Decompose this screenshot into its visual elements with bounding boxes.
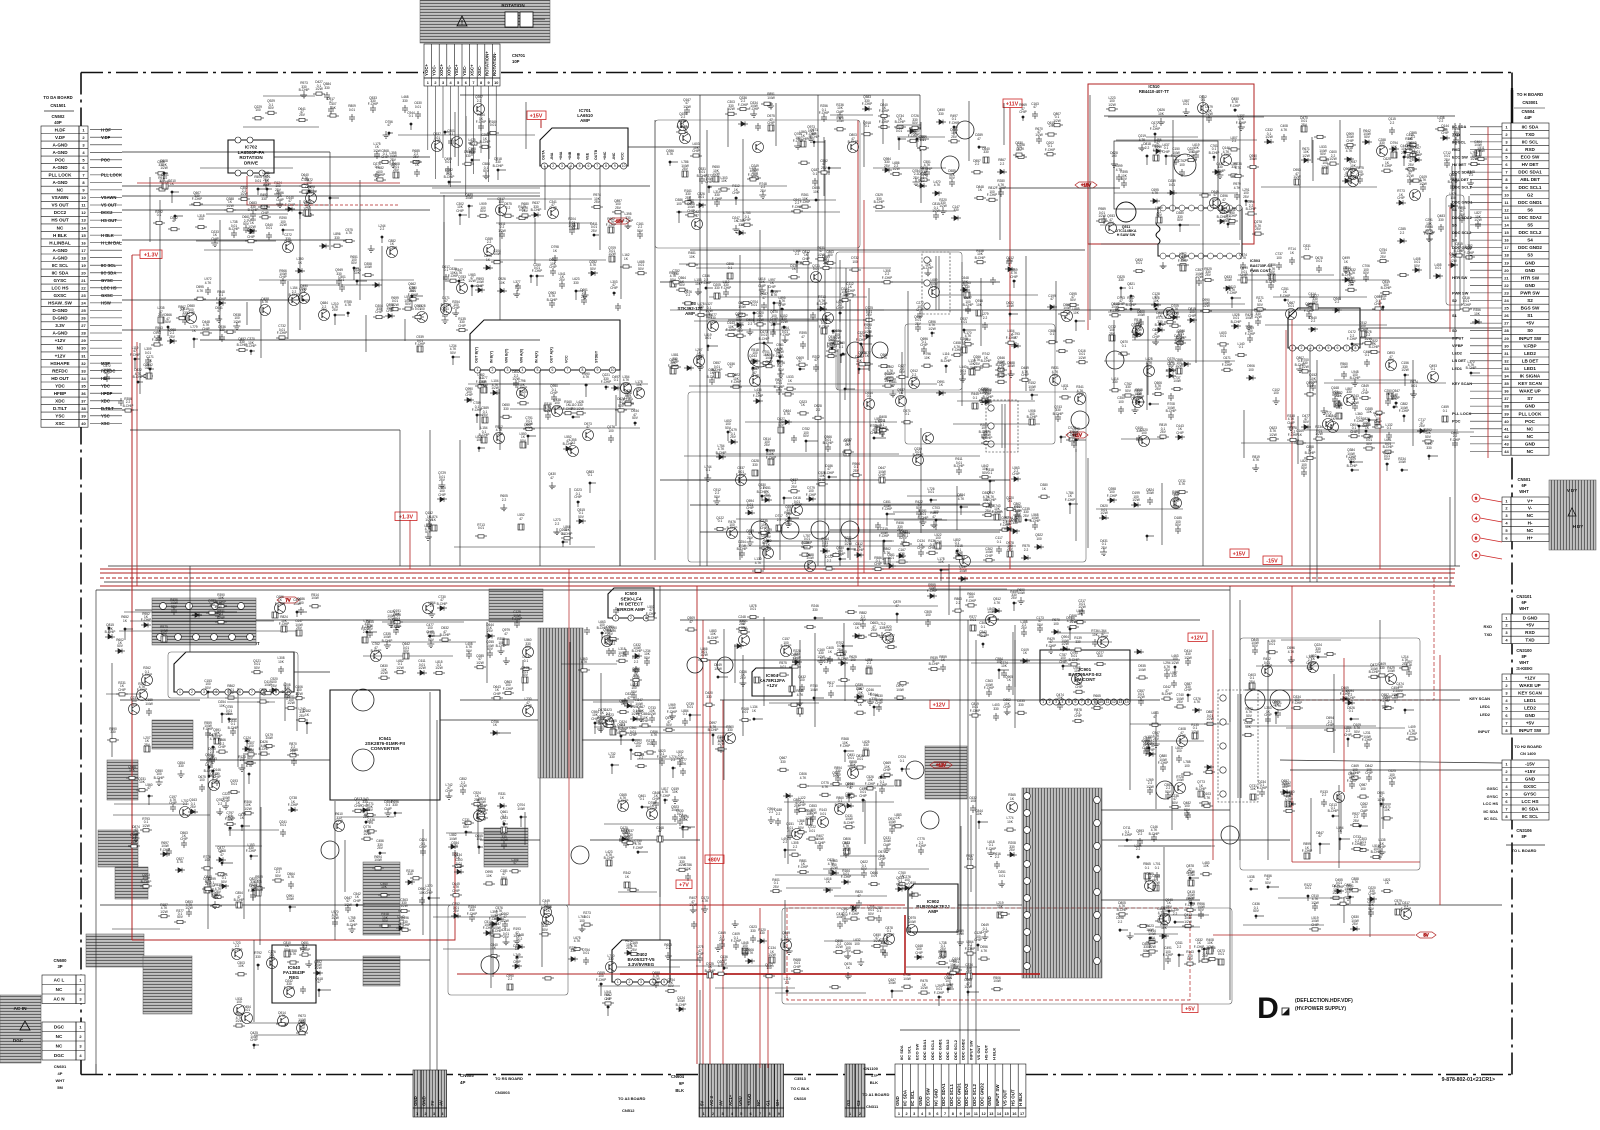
svg-text:CHIP: CHIP: [917, 546, 925, 550]
svg-text:F-CHIP: F-CHIP: [1347, 337, 1358, 341]
svg-text:0.1: 0.1: [1201, 98, 1206, 102]
HV drive Q903: [768, 766, 910, 893]
svg-text:G1: G1: [766, 1100, 771, 1106]
svg-text:ROTATION+: ROTATION+: [485, 51, 490, 76]
svg-text:LED2: LED2: [1524, 351, 1536, 356]
opto feedback: [332, 801, 426, 940]
svg-text:25V: 25V: [413, 155, 420, 159]
svg-text:F-CHIP: F-CHIP: [726, 328, 737, 332]
net label +12V: [930, 700, 949, 709]
svg-text:DDC SDA1: DDC SDA1: [922, 1039, 927, 1060]
svg-text:36: 36: [1504, 389, 1509, 394]
svg-text:CHIP: CHIP: [284, 240, 292, 244]
svg-text:V.FBP: V.FBP: [1523, 343, 1536, 348]
svg-text:RXD: RXD: [1452, 147, 1460, 152]
svg-text:ECO SW: ECO SW: [914, 1044, 919, 1060]
red vertical CN604: [759, 908, 761, 1068]
svg-text:2.2: 2.2: [213, 895, 218, 899]
rectifier parts 2: [593, 673, 656, 774]
svg-text:100: 100: [298, 601, 304, 605]
top left rail parts: [243, 91, 355, 127]
svg-text:B-CHIP: B-CHIP: [954, 464, 965, 468]
svg-text:B-CHIP: B-CHIP: [232, 948, 243, 952]
svg-text:AMP: AMP: [685, 311, 695, 316]
svg-text:!: !: [461, 21, 463, 27]
svg-text:20: 20: [81, 270, 86, 275]
svg-text:47: 47: [1222, 198, 1226, 202]
svg-text:25V: 25V: [1243, 195, 1250, 199]
svg-text:B-CHIP: B-CHIP: [1246, 207, 1257, 211]
svg-text:25V: 25V: [271, 684, 278, 688]
svg-text:1/4W: 1/4W: [265, 736, 272, 740]
svg-text:H BLK: H BLK: [991, 1048, 996, 1060]
svg-text:F-CHIP: F-CHIP: [1110, 309, 1121, 313]
svg-text:+80V: +80V: [708, 857, 721, 863]
snubber parts: [362, 603, 520, 684]
svg-text:INPUT SW: INPUT SW: [1519, 728, 1542, 733]
svg-text:BLK: BLK: [870, 1080, 878, 1085]
svg-text:F-CHIP: F-CHIP: [1450, 438, 1461, 442]
svg-text:0.01: 0.01: [1220, 334, 1226, 338]
svg-text:1/2W: 1/2W: [303, 207, 310, 211]
svg-text:10K: 10K: [976, 303, 983, 307]
svg-text:OUTA: OUTA: [541, 150, 545, 160]
svg-text:1/2W: 1/2W: [1098, 214, 1105, 218]
svg-text:7: 7: [251, 690, 253, 694]
relay drive chain: [201, 728, 265, 929]
svg-text:0.01: 0.01: [928, 490, 934, 494]
svg-text:TO L BOARD: TO L BOARD: [1512, 848, 1537, 853]
svg-text:GND: GND: [1525, 268, 1536, 273]
svg-text:OUTB: OUTB: [594, 149, 598, 160]
svg-text:0.1: 0.1: [157, 213, 162, 217]
svg-text:330: 330: [402, 99, 408, 103]
svg-text:1/2W: 1/2W: [1315, 432, 1322, 436]
svg-text:+5V: +5V: [1526, 623, 1535, 628]
S-correction switches: [669, 252, 896, 403]
svg-text:25V: 25V: [226, 712, 233, 716]
red vertical mid: [568, 569, 570, 905]
svg-text:2.2: 2.2: [363, 630, 368, 634]
svg-text:CHIP: CHIP: [1162, 150, 1170, 154]
svg-text:-INA: -INA: [550, 152, 554, 160]
rotation drive discretes: [150, 168, 343, 253]
svg-text:VSAWN: VSAWN: [52, 195, 70, 200]
svg-text:F-CHIP: F-CHIP: [279, 622, 290, 626]
svg-text:B-CHIP: B-CHIP: [1383, 445, 1394, 449]
red vertical bottom3: [709, 660, 711, 1064]
svg-text:YSC+: YSC+: [454, 64, 459, 76]
svg-text:18: 18: [1504, 253, 1509, 258]
svg-text:0.01: 0.01: [469, 142, 475, 146]
svg-text:YOC+: YOC+: [424, 63, 429, 76]
svg-text:4.7K: 4.7K: [1152, 191, 1159, 195]
IC701 input network: [370, 102, 535, 185]
svg-text:50V: 50V: [714, 495, 721, 499]
svg-text:IIC SDA: IIC SDA: [899, 1045, 904, 1060]
svg-text:H BLK: H BLK: [1018, 1092, 1023, 1106]
svg-text:25V: 25V: [636, 387, 643, 391]
svg-text:LED2: LED2: [1480, 712, 1491, 717]
svg-text:12: 12: [981, 1112, 985, 1116]
svg-text:GYSC: GYSC: [53, 278, 67, 283]
T902 pin circles: [1024, 793, 1101, 970]
svg-text:VS OUT: VS OUT: [1003, 1089, 1008, 1106]
svg-text:2.2: 2.2: [795, 252, 800, 256]
svg-text:4.7K: 4.7K: [1240, 256, 1247, 260]
svg-text:B-CHIP: B-CHIP: [248, 208, 259, 212]
H buf top: [676, 102, 776, 147]
svg-text:25V: 25V: [390, 158, 397, 162]
svg-text:B-CHIP: B-CHIP: [923, 266, 934, 270]
svg-text:B-CHIP: B-CHIP: [1369, 345, 1380, 349]
svg-text:NC: NC: [1527, 449, 1534, 454]
svg-text:25V: 25V: [1255, 227, 1262, 231]
svg-text:B-CHIP: B-CHIP: [154, 776, 165, 780]
thick red vertical: [904, 915, 906, 974]
svg-text:1/2W: 1/2W: [780, 320, 787, 324]
svg-text:47: 47: [317, 980, 321, 984]
svg-text:2: 2: [1049, 700, 1051, 704]
svg-text:10: 10: [494, 81, 498, 85]
svg-text:B-CHIP: B-CHIP: [479, 433, 490, 437]
svg-text:H.LINBAL: H.LINBAL: [49, 240, 71, 245]
svg-text:A-GND: A-GND: [52, 142, 68, 147]
relay mid: [202, 807, 298, 912]
svg-text:VEE: VEE: [585, 152, 589, 160]
svg-text:0.01: 0.01: [255, 179, 261, 183]
svg-text:F-CHIP: F-CHIP: [623, 219, 634, 223]
svg-text:0.1: 0.1: [449, 132, 454, 136]
svg-text:F-CHIP: F-CHIP: [792, 205, 803, 209]
svg-text:OUT A(X): OUT A(X): [550, 346, 554, 363]
svg-text:0.01: 0.01: [1411, 384, 1417, 388]
red bus y=586: [100, 585, 1455, 587]
svg-text:F-CHIP: F-CHIP: [1245, 332, 1256, 336]
svg-text:NC: NC: [56, 987, 63, 992]
svg-text:CHIP: CHIP: [758, 284, 766, 288]
svg-text:6: 6: [1337, 346, 1339, 350]
svg-text:100: 100: [1180, 258, 1186, 262]
svg-text:100: 100: [236, 1000, 242, 1004]
svg-text:35: 35: [81, 383, 86, 388]
reg low: [690, 900, 795, 988]
svg-text:1/2W: 1/2W: [939, 204, 946, 208]
svg-text:1/2W: 1/2W: [1364, 337, 1371, 341]
H drv buf top: [878, 99, 946, 150]
svg-text:NC: NC: [56, 1043, 63, 1048]
svg-text:CONVERTER: CONVERTER: [371, 746, 401, 751]
svg-text:PLL LOCK: PLL LOCK: [49, 173, 73, 178]
svg-text:F-CHIP: F-CHIP: [806, 493, 817, 497]
filter FL601: [115, 867, 148, 899]
svg-text:1/4W: 1/4W: [1245, 316, 1252, 320]
svg-text:15: 15: [81, 233, 86, 238]
svg-text:0.1: 0.1: [1239, 345, 1244, 349]
red stub: [132, 254, 158, 256]
svg-text:11: 11: [1106, 700, 1110, 704]
svg-text:44: 44: [1504, 449, 1509, 454]
svg-text:10K: 10K: [1391, 397, 1398, 401]
svg-text:18: 18: [81, 255, 86, 260]
svg-text:7: 7: [472, 81, 474, 85]
svg-text:25: 25: [81, 308, 86, 313]
svg-text:S4: S4: [1527, 238, 1533, 243]
svg-text:XDC: XDC: [55, 399, 65, 404]
op-amp IC640 converter block: [330, 690, 440, 800]
svg-text:NC: NC: [1527, 528, 1534, 533]
svg-text:8: 8: [1355, 346, 1357, 350]
svg-text:CHIP: CHIP: [549, 206, 557, 210]
red bus y=578: [100, 577, 1455, 579]
drive stage: [873, 122, 1007, 220]
red drop: [409, 520, 411, 569]
svg-text:1/2W: 1/2W: [244, 807, 251, 811]
bottom series: [769, 940, 903, 999]
svg-text:25V: 25V: [1380, 255, 1387, 259]
net label +1.3V: [395, 512, 417, 521]
svg-text:ECO SW: ECO SW: [1521, 155, 1540, 160]
svg-text:V.FBP: V.FBP: [1452, 343, 1464, 348]
svg-text:17: 17: [81, 248, 86, 253]
svg-text:50V: 50V: [254, 666, 261, 670]
svg-text:2.2: 2.2: [1145, 146, 1150, 150]
svg-text:F-CHIP: F-CHIP: [216, 600, 227, 604]
svg-text:27: 27: [81, 323, 86, 328]
svg-text:6P: 6P: [1521, 483, 1526, 488]
svg-text:25V: 25V: [764, 493, 771, 497]
red circled pins: [1472, 494, 1502, 559]
svg-text:1: 1: [1042, 700, 1044, 704]
svg-text:0.1: 0.1: [1443, 409, 1448, 413]
red horiz 5V: [1213, 934, 1415, 936]
red dashed branch: [1300, 578, 1434, 700]
svg-text:F-CHIP: F-CHIP: [766, 456, 777, 460]
svg-text:0.01: 0.01: [1316, 259, 1322, 263]
svg-text:H-: H-: [1528, 521, 1533, 526]
PWB cont periphery: [1237, 256, 1392, 354]
svg-text:B-CHIP: B-CHIP: [531, 208, 542, 212]
svg-text:DDC GND2: DDC GND2: [980, 1083, 985, 1106]
svg-text:F-CHIP: F-CHIP: [192, 197, 203, 201]
svg-text:GND: GND: [1525, 442, 1536, 447]
hv drive parts: [783, 750, 894, 834]
svg-text:+12V: +12V: [1525, 675, 1537, 680]
svg-text:25V: 25V: [747, 536, 754, 540]
svg-text:CHIP: CHIP: [381, 155, 389, 159]
svg-text:25V: 25V: [594, 200, 601, 204]
svg-text:-INC: -INC: [612, 152, 616, 160]
red vertical 1286: [1285, 330, 1287, 420]
svg-text:10: 10: [611, 368, 615, 372]
svg-text:0.01: 0.01: [1169, 183, 1175, 187]
svg-text:2: 2: [191, 690, 193, 694]
svg-text:B-CHIP: B-CHIP: [774, 385, 785, 389]
svg-text:25V: 25V: [169, 335, 176, 339]
deflection yoke block: [1549, 480, 1596, 550]
svg-text:HFBP: HFBP: [54, 391, 67, 396]
svg-text:47: 47: [217, 309, 221, 313]
warning triangle: [457, 16, 467, 26]
svg-text:CN 1400: CN 1400: [1520, 751, 1537, 756]
svg-text:F-CHIP: F-CHIP: [721, 286, 732, 290]
svg-text:1/2W: 1/2W: [491, 386, 498, 390]
svg-text:100: 100: [199, 778, 205, 782]
svg-text:B-CHIP: B-CHIP: [204, 769, 215, 773]
svg-text:PWR SW: PWR SW: [1520, 291, 1540, 296]
svg-text:330: 330: [465, 154, 471, 158]
svg-text:AMP: AMP: [928, 909, 938, 914]
mains filter parts: [112, 770, 232, 929]
svg-text:HSAW_SW: HSAW_SW: [48, 301, 72, 306]
svg-text:CHIP: CHIP: [1374, 302, 1382, 306]
svg-text:LCC HS: LCC HS: [1521, 799, 1538, 804]
svg-text:DDC GND2: DDC GND2: [961, 1038, 966, 1060]
svg-text:10K: 10K: [219, 704, 226, 708]
rotation motor symbol: [505, 12, 545, 27]
svg-text:5M: 5M: [57, 1085, 63, 1090]
svg-text:2.2: 2.2: [1335, 300, 1340, 304]
svg-text:VS OUT: VS OUT: [976, 1045, 981, 1060]
svg-text:VIN B(Y): VIN B(Y): [505, 348, 509, 363]
svg-text:V DY: V DY: [1567, 488, 1577, 493]
svg-text:1/4W: 1/4W: [1340, 365, 1347, 369]
svg-text:TO RS BOARD: TO RS BOARD: [495, 1076, 523, 1081]
svg-text:KEY SCAN: KEY SCAN: [1469, 696, 1490, 701]
svg-text:25V: 25V: [685, 196, 692, 200]
svg-text:F-CHIP: F-CHIP: [840, 293, 851, 297]
noop: [239, 120, 241, 569]
svg-text:330: 330: [244, 739, 250, 743]
svg-text:STDBY: STDBY: [595, 350, 599, 363]
svg-text:35: 35: [1504, 381, 1509, 386]
svg-text:F-CHIP: F-CHIP: [246, 849, 257, 853]
svg-text:15: 15: [1004, 1112, 1008, 1116]
svg-text:16: 16: [1012, 1112, 1016, 1116]
svg-text:DCC2: DCC2: [54, 210, 67, 215]
red horiz to D area: [1292, 861, 1420, 863]
svg-text:+12V: +12V: [55, 338, 67, 343]
svg-text:8P: 8P: [1521, 834, 1526, 839]
svg-text:LB DET: LB DET: [1522, 358, 1539, 363]
left connector lead wires: [90, 130, 122, 424]
svg-text:100: 100: [1276, 256, 1282, 260]
svg-text:25V: 25V: [1205, 273, 1212, 277]
svg-text:10K: 10K: [238, 964, 245, 968]
svg-text:1/2W: 1/2W: [525, 422, 532, 426]
svg-text:HD OUT: HD OUT: [51, 376, 69, 381]
svg-text:50V: 50V: [632, 416, 639, 420]
svg-text:CN3100: CN3100: [1516, 648, 1532, 653]
svg-text:330: 330: [1118, 278, 1124, 282]
svg-text:B-CHIP: B-CHIP: [809, 135, 820, 139]
svg-text:CHIP: CHIP: [549, 265, 557, 269]
svg-text:DRIVE: DRIVE: [244, 160, 258, 165]
svg-text:50V: 50V: [1177, 218, 1184, 222]
svg-text:CN600: CN600: [53, 958, 67, 963]
svg-text:B-CHIP: B-CHIP: [823, 441, 834, 445]
svg-text:100: 100: [204, 858, 210, 862]
svg-text:F-CHIP: F-CHIP: [1150, 127, 1161, 131]
op-amp IC702: [228, 140, 274, 173]
transformer T903: [925, 746, 967, 799]
svg-text:CHIP: CHIP: [687, 209, 695, 213]
svg-text:34: 34: [81, 376, 86, 381]
svg-text:IIC SDA: IIC SDA: [1522, 806, 1540, 811]
svg-text:INPUT: INPUT: [1478, 729, 1491, 734]
svg-text:100: 100: [1248, 368, 1254, 372]
svg-text:+1.3V: +1.3V: [399, 514, 414, 520]
svg-text:F-CHIP: F-CHIP: [1171, 154, 1182, 158]
svg-text:C3: C3: [856, 1100, 861, 1106]
svg-text:CN601: CN601: [54, 1064, 67, 1069]
right mid parts: [1396, 184, 1469, 279]
svg-text:CN3101: CN3101: [1516, 594, 1532, 599]
svg-text:8: 8: [1087, 700, 1089, 704]
svg-text:0.01: 0.01: [1288, 304, 1294, 308]
svg-text:F-CHIP: F-CHIP: [996, 186, 1007, 190]
red vertical bottom2: [702, 620, 704, 1064]
svg-text:CHIP: CHIP: [985, 554, 993, 558]
red vertical right: [1379, 300, 1381, 569]
svg-text:F-CHIP: F-CHIP: [987, 193, 998, 197]
svg-text:0.1: 0.1: [409, 114, 414, 118]
svg-text:B-CHIP: B-CHIP: [382, 639, 393, 643]
svg-text:INPUT SW: INPUT SW: [995, 1084, 1000, 1106]
svg-text:+RGB: +RGB: [747, 1094, 752, 1106]
red net -15V: [137, 182, 400, 184]
svg-text:0.01: 0.01: [231, 782, 237, 786]
svg-text:33: 33: [1504, 366, 1509, 371]
svg-text:1/4W: 1/4W: [493, 252, 500, 256]
relay RM601: [107, 760, 138, 800]
svg-text:1/2W: 1/2W: [844, 542, 851, 546]
svg-text:F-CHIP: F-CHIP: [824, 471, 835, 475]
svg-text:25V: 25V: [559, 278, 566, 282]
op-amp IC701 LA6510: [540, 128, 628, 166]
svg-text:F-CHIP: F-CHIP: [152, 338, 163, 342]
svg-text:IN B(Y): IN B(Y): [490, 350, 494, 363]
svg-text:CHIP: CHIP: [1117, 302, 1125, 306]
svg-text:1/2W: 1/2W: [185, 906, 192, 910]
svg-text:+INC: +INC: [603, 151, 607, 160]
black bus line: [104, 581, 1452, 583]
svg-text:CHIP: CHIP: [920, 343, 928, 347]
svg-text:XSC: XSC: [55, 421, 65, 426]
svg-text:H DY: H DY: [1573, 524, 1584, 529]
svg-text:26: 26: [81, 316, 86, 321]
svg-text:4.7K: 4.7K: [210, 737, 217, 741]
svg-text:330: 330: [1426, 446, 1432, 450]
svg-text:B-CHIP: B-CHIP: [563, 442, 574, 446]
svg-text:DDC SDA1: DDC SDA1: [1518, 170, 1542, 175]
svg-text:3P: 3P: [57, 964, 62, 969]
aux winding parts: [445, 787, 527, 874]
svg-text:V+: V+: [1527, 498, 1533, 503]
photo coupler PH602: [484, 828, 528, 867]
svg-text:+15V: +15V: [1081, 183, 1091, 188]
svg-text:2: 2: [434, 81, 436, 85]
3.3V reg parts: [483, 907, 593, 991]
svg-text:30: 30: [1504, 343, 1509, 348]
svg-text:4.7K: 4.7K: [583, 375, 590, 379]
svg-text:0.1: 0.1: [706, 468, 711, 472]
svg-text:3: 3: [913, 1112, 915, 1116]
svg-text:50V: 50V: [618, 404, 625, 408]
svg-text:0.01: 0.01: [1410, 145, 1416, 149]
svg-text:14: 14: [1125, 700, 1129, 704]
svg-text:CHIP: CHIP: [456, 209, 464, 213]
